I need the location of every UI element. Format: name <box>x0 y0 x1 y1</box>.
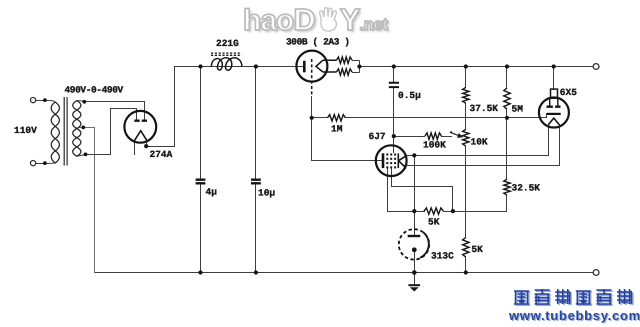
svg-text:6X5: 6X5 <box>560 87 577 98</box>
tube 300B plate <box>303 61 306 73</box>
svg-text:1M: 1M <box>331 124 343 135</box>
svg-text:5M: 5M <box>512 104 524 115</box>
wire top rail left (B+ rail from rectifier to 300B plate) <box>175 66 305 68</box>
svg-text:221G: 221G <box>216 38 239 49</box>
tube 274A envelope <box>124 111 156 143</box>
wire 5M / 32.5K column <box>506 67 508 212</box>
wire 4u cap column <box>200 67 202 273</box>
inductor 221G dashed core <box>211 53 242 55</box>
svg-text:100K: 100K <box>423 140 446 151</box>
resistor 5K horizontal (bias) <box>424 208 443 214</box>
wire 6J7 cathode-bottom to 5K line left end <box>387 168 389 212</box>
wire 0.5u cap column + 6J7 grid cap lead <box>394 67 425 153</box>
resistor 5M <box>504 88 510 109</box>
resistor filament bottom <box>337 69 353 75</box>
wire 313C cathode lead <box>414 250 416 273</box>
wire 6X5 top cap lead <box>553 67 555 90</box>
svg-text:10μ: 10μ <box>258 188 275 199</box>
tube 6X5 plate leads <box>550 99 558 106</box>
svg-text:4μ: 4μ <box>206 187 218 198</box>
wire 10u cap column <box>255 67 257 273</box>
tube 6J7 cathode K <box>398 153 407 168</box>
wire secondary top tap to 274A right plate <box>85 102 145 120</box>
capacitor 0.5u <box>389 83 399 87</box>
svg-text:490V-0-490V: 490V-0-490V <box>65 85 124 96</box>
svg-text:6J7: 6J7 <box>369 131 386 142</box>
svg-text:10K: 10K <box>471 136 488 147</box>
wire 6J7 cathode down to 5K <box>414 156 416 212</box>
ground symbol <box>408 284 420 286</box>
inductor 221G choke <box>211 58 242 70</box>
svg-text:5K: 5K <box>428 217 440 228</box>
tube 313C cathode dot <box>412 247 417 252</box>
terminal 110V top <box>30 98 35 103</box>
wire secondary bottom tap to 274A left plate <box>85 109 137 155</box>
terminal output top right <box>593 64 599 70</box>
tube 300B grid (dashed) <box>311 59 313 97</box>
terminal output bottom right <box>593 270 599 276</box>
wire 37.5K/10K/5K column <box>465 67 467 273</box>
transformer T1 secondary winding <box>73 101 81 157</box>
wire secondary center tap <box>79 128 95 273</box>
wire 313C anode lead <box>414 212 416 235</box>
resistor 5K vertical <box>463 238 469 258</box>
wire primary top lead <box>36 101 56 103</box>
resistor 37.5K <box>463 87 469 103</box>
resistor 32.5K <box>504 179 510 195</box>
svg-text:37.5K: 37.5K <box>470 103 499 114</box>
pot wiper arrow <box>450 132 463 138</box>
resistor 10K pot <box>463 129 469 146</box>
resistor 1M <box>328 115 346 121</box>
tube 6J7 grids (dot matrix) <box>386 154 396 169</box>
wire top rail right (from 300B filament junction to output terminal) <box>360 66 594 68</box>
svg-text:32.5K: 32.5K <box>512 183 541 194</box>
transformer T1 primary winding <box>51 102 59 163</box>
wire 6J7 cathode upper to 6X5 filament left <box>407 125 549 156</box>
tube 313C anode bar <box>408 235 421 237</box>
capacitor 10u <box>251 180 261 184</box>
wire 6J7 cathode lower to 6X5 filament right <box>406 125 560 166</box>
wire 5K bias resistor line <box>388 211 507 213</box>
transformer T1 core <box>64 97 67 166</box>
tube 6X5 plates <box>547 105 561 107</box>
svg-text:110V: 110V <box>14 125 37 136</box>
wire rectifier output riser <box>147 67 175 147</box>
tube 300B envelope <box>296 51 327 82</box>
wire 274A filament right lead <box>146 141 148 147</box>
tube 313C envelope (dashed) <box>399 229 429 259</box>
wire filament resistors join <box>352 61 360 73</box>
wire 274A filament left stub <box>134 141 136 155</box>
svg-text:313C: 313C <box>431 251 454 262</box>
resistor filament top <box>337 57 353 63</box>
wire ground stem <box>414 273 416 285</box>
svg-text:5K: 5K <box>471 244 483 255</box>
terminal 110V bottom <box>30 161 35 166</box>
wire primary bottom lead <box>36 162 56 165</box>
wire bias line 1M to 6X5 cathode <box>312 114 547 118</box>
tube 6X5 top cap <box>551 89 558 98</box>
tube 6J7 plate <box>382 153 385 168</box>
tube 6J7 envelope <box>376 145 407 176</box>
tube 6X5 filament <box>548 118 559 125</box>
watermark chinese glyphs <box>514 289 633 305</box>
tube 6X5 cathode bar <box>547 113 561 115</box>
wire 300B grid to 6J7 plate <box>312 97 383 161</box>
tube 6X5 envelope <box>539 98 569 128</box>
watermark url <box>509 308 640 323</box>
wire 100K to pot arrow tail <box>442 136 452 138</box>
tube 300B filament <box>316 60 337 72</box>
wire 6J7 suppressor loop <box>392 168 453 212</box>
tube 313C solid arc right <box>420 232 429 257</box>
svg-text:274A: 274A <box>150 149 173 160</box>
svg-text:300B ( 2A3 ): 300B ( 2A3 ) <box>286 37 350 48</box>
tube 274A plates <box>134 119 147 121</box>
resistor 100K <box>425 133 442 139</box>
svg-text:0.5μ: 0.5μ <box>398 90 421 101</box>
tube 274A filament <box>135 131 147 141</box>
wire secondary tap stubs <box>77 101 85 157</box>
wire bottom ground rail <box>95 272 594 274</box>
capacitor 4u <box>196 180 206 184</box>
logo haoDIY.net watermark <box>243 1 413 35</box>
